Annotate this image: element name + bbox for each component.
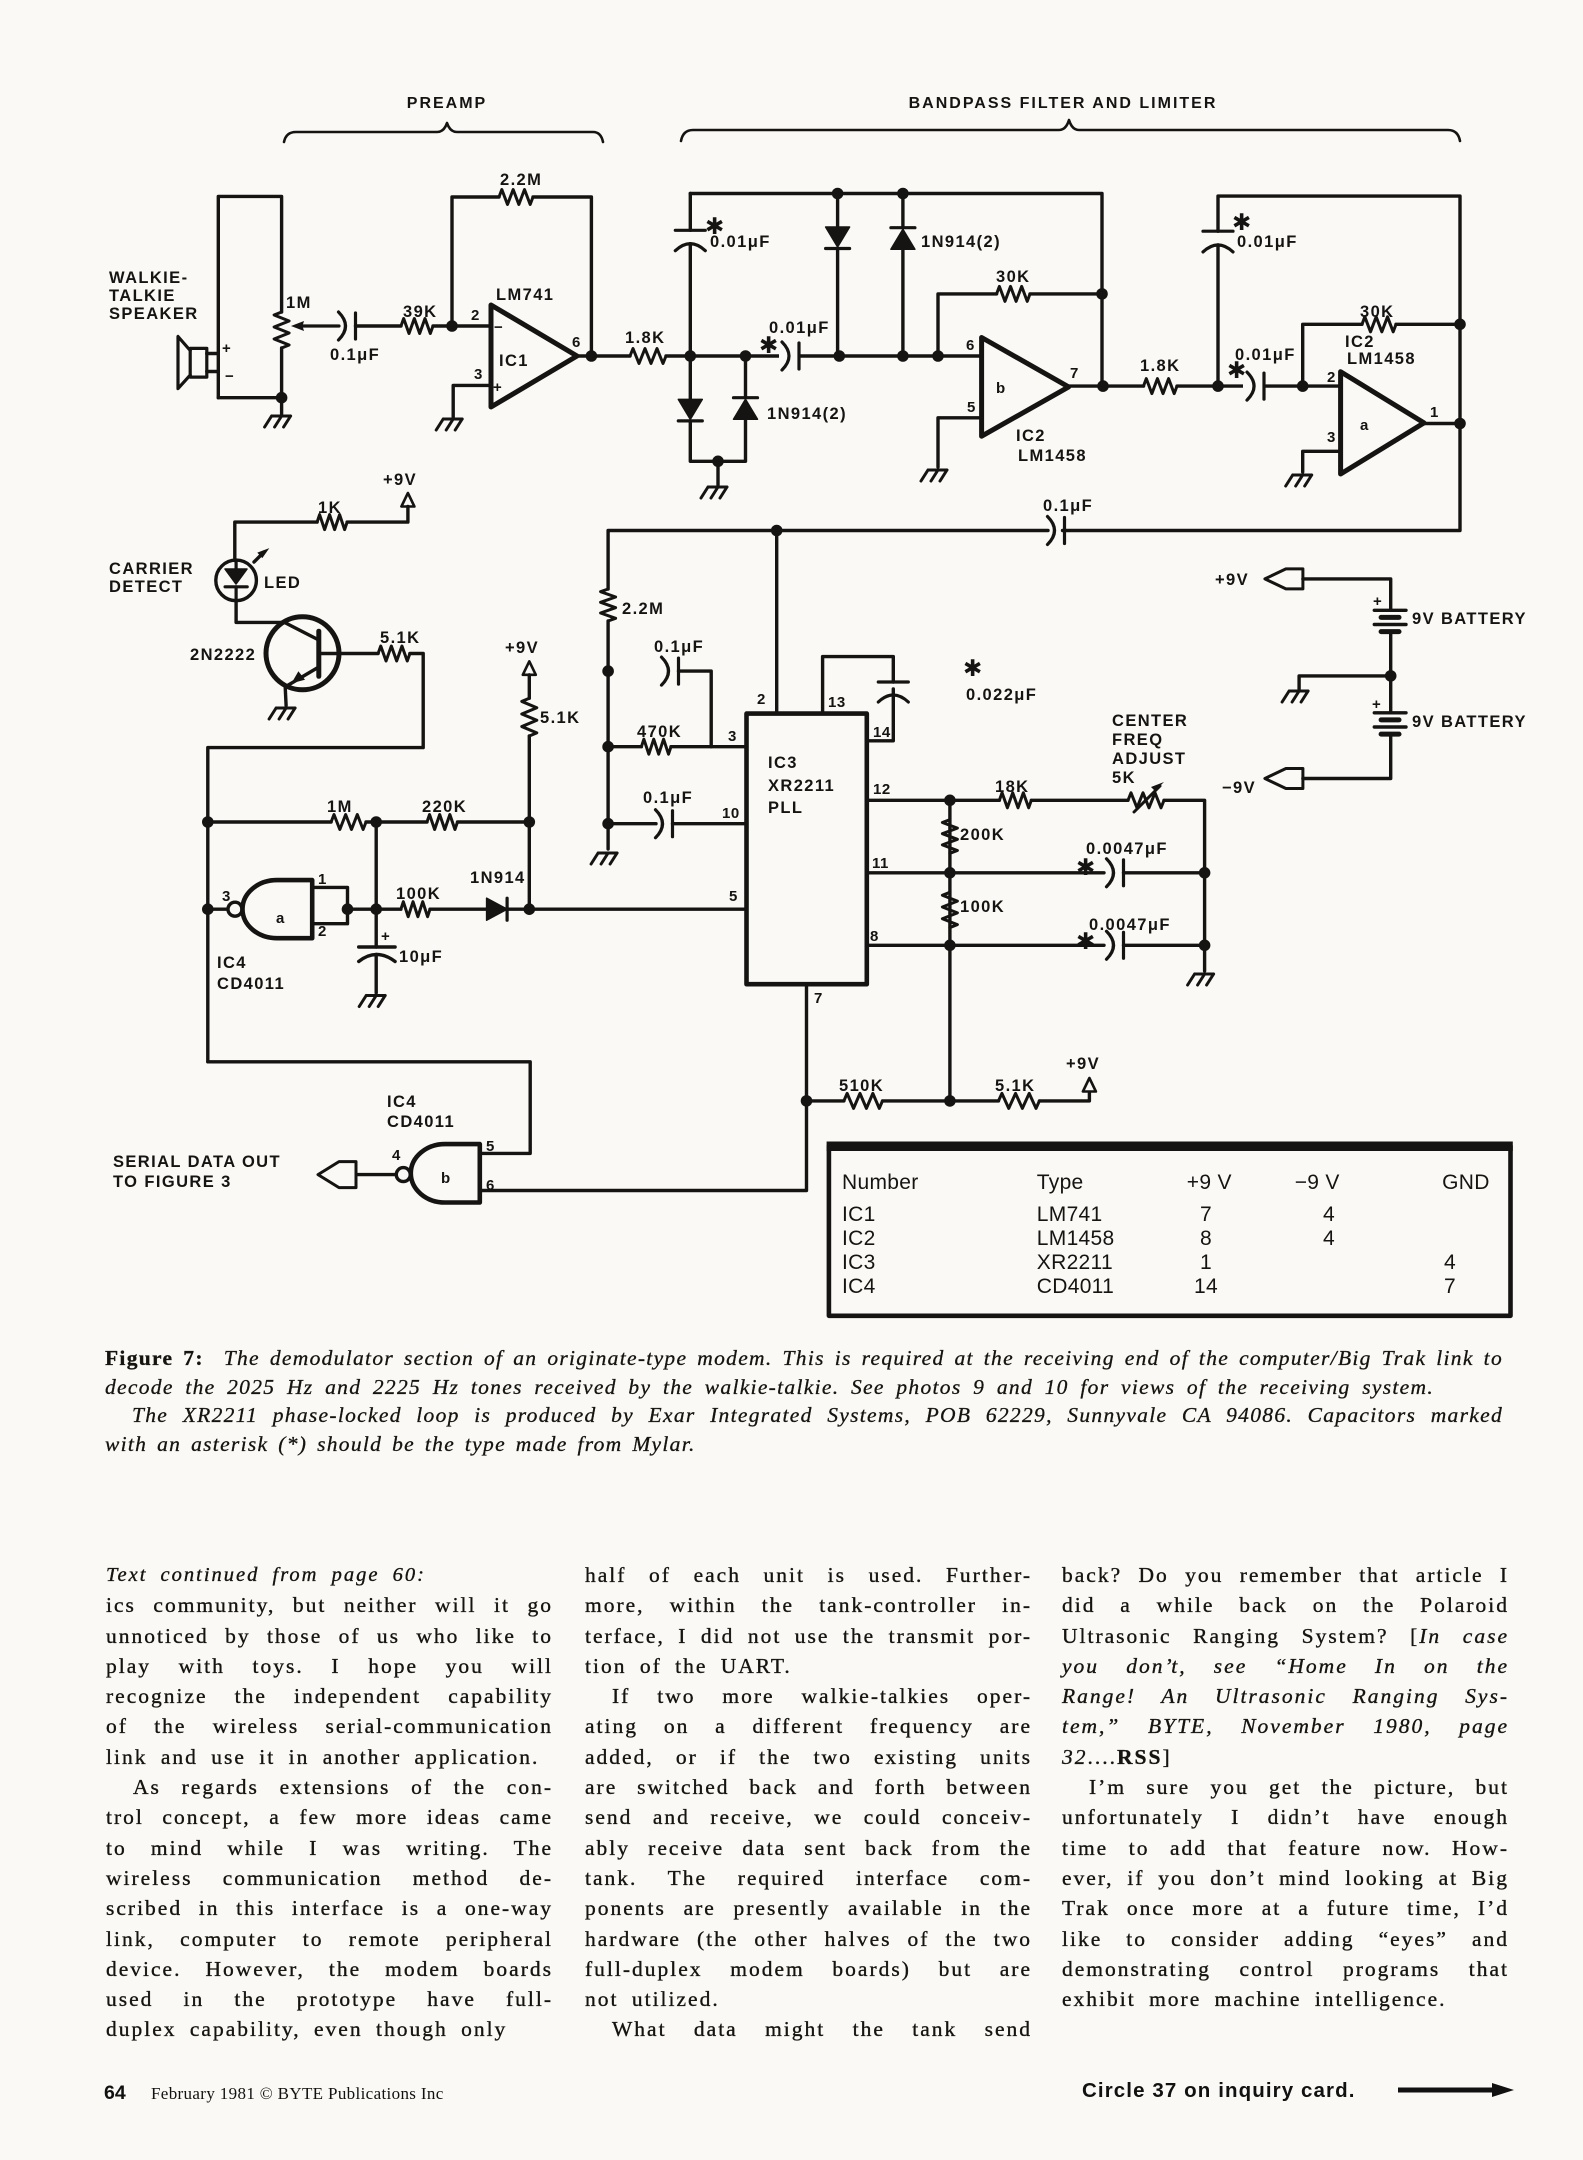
- junction main line after series cap: [834, 350, 846, 362]
- wire 100K to 1N914: [430, 908, 487, 911]
- junction 30K 2 / rail: [1454, 319, 1466, 331]
- wire cap to pin3 node: [679, 671, 712, 747]
- junction top rail diode 1: [832, 188, 844, 200]
- svg-text:+9V: +9V: [505, 639, 539, 657]
- wire to ground: [280, 398, 283, 414]
- svg-text:XR2211: XR2211: [768, 777, 835, 795]
- resistor 39K: [401, 319, 433, 334]
- svg-text:30K: 30K: [996, 268, 1030, 286]
- wire shunt cap bottom lead: [689, 244, 692, 356]
- junction IC2a input / 30K: [1297, 380, 1309, 392]
- svg-text:a: a: [1360, 417, 1369, 434]
- junction 0.1uF pin3 bypass: [602, 665, 614, 677]
- svg-text:IC4: IC4: [217, 954, 247, 972]
- junction 220K / 5.1K: [524, 816, 536, 828]
- svg-text:5.1K: 5.1K: [540, 709, 580, 727]
- svg-text:3: 3: [474, 366, 483, 383]
- wire IC2a pin3 to ground: [1303, 451, 1341, 472]
- junction main line / lower diodes: [740, 350, 752, 362]
- svg-text:5.1K: 5.1K: [995, 1077, 1035, 1095]
- wire pot bottom: [218, 396, 281, 399]
- wire IC4a input strap pins 1-2: [312, 887, 347, 923]
- text column 2: [585, 1560, 1032, 2045]
- op-amp U IC1 LM741: [491, 305, 577, 407]
- junction pin8 / chain: [944, 940, 956, 952]
- svg-text:8: 8: [1200, 1227, 1212, 1250]
- svg-text:b: b: [441, 1170, 451, 1187]
- resistor 1.8K (IC1 output): [630, 349, 666, 364]
- svg-text:6: 6: [572, 334, 581, 351]
- svg-text:100K: 100K: [960, 898, 1005, 916]
- svg-text:200K: 200K: [960, 826, 1005, 844]
- wire cap to 39K: [356, 324, 402, 327]
- wire main signal line to IC2b pin6: [666, 354, 982, 357]
- resistor 220K: [427, 815, 457, 830]
- svg-text:6: 6: [966, 337, 975, 354]
- svg-text:14: 14: [873, 724, 891, 741]
- svg-text:12: 12: [873, 781, 891, 798]
- wire 0.022uF to pin14: [867, 689, 894, 741]
- wire 1M-220K node to 10uF: [375, 822, 378, 947]
- svg-text:LM1458: LM1458: [1018, 447, 1087, 465]
- junction lower diode pair / ground: [712, 456, 724, 468]
- svg-text:5.1K: 5.1K: [380, 629, 420, 647]
- svg-text:7: 7: [1200, 1203, 1212, 1226]
- resistor 200K: [942, 820, 957, 854]
- svg-text:+9V: +9V: [383, 471, 417, 489]
- wire pin8 node down: [948, 945, 951, 1101]
- svg-text:2: 2: [471, 307, 480, 324]
- wire IC1 output to 1.8K: [577, 354, 630, 357]
- wire pot bottom lead: [280, 348, 283, 398]
- transistor Q1 2N2222: [266, 617, 339, 690]
- svg-text:8: 8: [870, 928, 879, 945]
- capacitor 0.1uF coupling to PLL: [1048, 517, 1055, 545]
- resistor 5.1K pull-up: [999, 1093, 1040, 1108]
- wire pin8 line: [867, 944, 1104, 947]
- junction 1.8K / second shunt cap: [1212, 380, 1224, 392]
- wire diode D2 anode lead: [901, 249, 904, 356]
- resistor 510K: [844, 1093, 883, 1108]
- resistor 1.8K interstage: [1144, 379, 1177, 394]
- svg-text:0.0047μF: 0.0047μF: [1089, 916, 1171, 934]
- wire speaker loop to 1M pot top: [218, 196, 281, 397]
- wire IC2b pin6 to 30K: [938, 294, 997, 356]
- text column 3: [1062, 1560, 1509, 2014]
- potentiometer 5K center freq adjust: [1128, 793, 1164, 808]
- resistor 18K: [999, 793, 1031, 808]
- wire long vertical to IC4b pin5: [208, 1062, 530, 1154]
- ground at 1M pot: [265, 416, 291, 427]
- connector flag +9V: [1265, 569, 1303, 589]
- capacitor 0.01uF shunt (Mylar): [675, 244, 705, 251]
- svg-text:1N914: 1N914: [470, 869, 526, 887]
- svg-text:ADJUST: ADJUST: [1112, 750, 1186, 768]
- svg-text:+9V: +9V: [1066, 1055, 1100, 1073]
- ground at lower diode pair: [701, 487, 727, 498]
- svg-text:1.8K: 1.8K: [625, 329, 665, 347]
- svg-text:2.2M: 2.2M: [622, 600, 664, 618]
- svg-text:LM1458: LM1458: [1347, 350, 1416, 368]
- svg-text:0.1μF: 0.1μF: [643, 789, 693, 807]
- wire base network to long vertical: [208, 654, 423, 1062]
- svg-text:7: 7: [1070, 365, 1079, 382]
- svg-text:4: 4: [1444, 1251, 1456, 1274]
- junction diode / pin5 line: [524, 903, 536, 915]
- wire IC4a output to long vertical: [208, 908, 227, 911]
- wire XR2211 pin5 to 1N914: [529, 908, 746, 911]
- capacitor 0.01uF series 2 (Mylar): [1247, 372, 1254, 400]
- svg-text:SERIAL DATA OUT: SERIAL DATA OUT: [113, 1153, 281, 1171]
- gap for series cap 2: [1243, 370, 1264, 402]
- svg-text:9V BATTERY: 9V BATTERY: [1412, 610, 1527, 628]
- schematic figure 7: [0, 0, 1583, 1340]
- diode D1 1N914 (down): [826, 227, 850, 247]
- wiper arrow of 1M pot: [296, 324, 339, 327]
- resistor 5.1K base: [378, 646, 410, 661]
- ground at bias network: [591, 853, 617, 864]
- power connection table: [829, 1146, 1511, 1316]
- svg-text:IC3: IC3: [768, 754, 798, 772]
- resistor 2.2M bias: [601, 589, 616, 621]
- svg-text:2: 2: [1327, 369, 1336, 386]
- svg-text:0.1μF: 0.1μF: [1043, 497, 1093, 515]
- svg-text:470K: 470K: [637, 723, 682, 741]
- junction 1M / 220K / 10uF node: [370, 816, 382, 828]
- wire XR2211 pin7 down: [805, 984, 808, 1101]
- svg-text:0.01μF: 0.01μF: [1237, 233, 1298, 251]
- svg-text:IC4: IC4: [387, 1093, 417, 1111]
- capacitor 0.022uF (Mylar) timing: [878, 695, 908, 702]
- svg-text:Type: Type: [1037, 1171, 1084, 1194]
- svg-text:1M: 1M: [286, 294, 312, 312]
- IC U3 XR2211 PLL box: [747, 714, 867, 985]
- svg-text:IC2: IC2: [1016, 427, 1046, 445]
- svg-text:−9V: −9V: [1222, 779, 1256, 797]
- svg-text:30K: 30K: [1360, 303, 1394, 321]
- capacitor 0.1uF (pin 10): [656, 810, 663, 838]
- wire IC1 feedback left: [452, 197, 499, 326]
- svg-text:1: 1: [1430, 404, 1439, 421]
- resistor 2.2M feedback IC1: [499, 190, 533, 205]
- ground at right vertical: [1188, 974, 1214, 985]
- svg-text:2: 2: [318, 923, 327, 940]
- resistor 470K: [641, 739, 671, 754]
- svg-text:100K: 100K: [396, 885, 441, 903]
- wire +9V flag to battery 1: [1303, 579, 1391, 610]
- svg-text:0.1μF: 0.1μF: [330, 346, 380, 364]
- svg-text:IC2: IC2: [842, 1227, 876, 1250]
- svg-text:5: 5: [486, 1138, 495, 1155]
- wire IC2a output to rail: [1424, 422, 1460, 425]
- svg-text:4: 4: [1323, 1203, 1335, 1226]
- op-amp U IC2b LM1458: [982, 338, 1069, 437]
- diode D3 1N914 (down): [678, 399, 702, 419]
- svg-text:SPEAKER: SPEAKER: [109, 305, 199, 323]
- capacitor 0.0047uF (Mylar) pin8: [1107, 931, 1114, 959]
- wire shunt cap 2 bottom lead: [1216, 245, 1219, 386]
- battery B1 9V: [1374, 609, 1406, 612]
- potentiometer R 1M (volume): [274, 312, 289, 348]
- junction 470K: [602, 741, 614, 753]
- svg-text:5K: 5K: [1112, 769, 1136, 787]
- svg-text:2: 2: [757, 691, 766, 708]
- wire strap to 100K: [348, 908, 401, 911]
- wire XR2211 pin2 from signal line: [775, 531, 778, 714]
- svg-text:0.01μF: 0.01μF: [710, 233, 771, 251]
- junction long vertical / 1M: [202, 816, 214, 828]
- wire 200K/100K chain: [948, 800, 951, 945]
- ground at 10uF: [359, 996, 385, 1007]
- wire 10uF to ground: [375, 955, 378, 993]
- wire diode D2 cathode lead: [901, 194, 904, 228]
- svg-text:PLL: PLL: [768, 799, 803, 817]
- wire IC2b output: [1069, 384, 1144, 387]
- wire 5K pot to right vertical: [1164, 800, 1205, 971]
- wire emitter to ground: [284, 687, 288, 706]
- svg-text:+: +: [1372, 696, 1381, 713]
- wire 470K to XR2211 pin3: [671, 745, 747, 748]
- wire 0.1uF to 2.2M input node: [608, 531, 1048, 590]
- NAND gate U IC4b CD4011: [411, 1144, 480, 1202]
- svg-text:+: +: [222, 340, 231, 357]
- svg-text:IC2: IC2: [1345, 333, 1375, 351]
- svg-text:✱: ✱: [1076, 928, 1095, 954]
- junction IC2b output: [1097, 380, 1109, 392]
- wire LED cathode to 2N2222 collector: [236, 601, 284, 623]
- wire IC2b pin5 to ground: [938, 418, 982, 467]
- svg-text:2.2M: 2.2M: [500, 171, 542, 189]
- ground at 2N2222 emitter: [269, 708, 295, 719]
- connector flag serial data out: [318, 1162, 356, 1188]
- wire 0.0047 to right vertical: [1124, 871, 1205, 874]
- capacitor 0.01uF shunt 2 (Mylar): [1203, 245, 1233, 252]
- svg-text:0.022μF: 0.022μF: [966, 686, 1037, 704]
- speaker LS1 walkie-talkie: [190, 348, 207, 377]
- wire IC1 pin3 to ground: [453, 385, 491, 417]
- svg-text:DETECT: DETECT: [109, 578, 183, 596]
- svg-text:+: +: [493, 379, 502, 396]
- svg-text:39K: 39K: [403, 303, 437, 321]
- capacitor 0.01uF series (Mylar): [782, 342, 789, 370]
- svg-text:1.8K: 1.8K: [1140, 357, 1180, 375]
- svg-text:10: 10: [722, 805, 740, 822]
- svg-text:WALKIE-: WALKIE-: [109, 269, 188, 287]
- power +9V arrow (1K): [401, 493, 414, 507]
- wire 1K to LED anode: [235, 522, 317, 560]
- svg-text:✱: ✱: [1227, 357, 1246, 383]
- wire lower diode pair bottom: [690, 419, 745, 461]
- svg-text:LED: LED: [264, 574, 301, 592]
- wire pin10 cap to XR2211: [673, 822, 747, 825]
- figure caption: [105, 1344, 1503, 1458]
- svg-text:FREQ: FREQ: [1112, 731, 1163, 749]
- svg-text:0.1μF: 0.1μF: [654, 638, 704, 656]
- wire speaker - terminal: [207, 370, 219, 373]
- ground at IC1 pin3: [436, 419, 462, 430]
- junction battery midpoint: [1385, 670, 1397, 682]
- junction IC1 output: [586, 350, 598, 362]
- svg-text:+9V: +9V: [1215, 571, 1249, 589]
- LED carrier detect indicator: [216, 560, 257, 601]
- diode D5 1N914 series: [487, 898, 508, 920]
- wire IC1 feedback right: [533, 197, 591, 356]
- resistor 30K feedback IC2b: [997, 286, 1030, 301]
- junction main line / 0.01uF shunt: [685, 350, 697, 362]
- resistor 100K chain: [942, 892, 957, 927]
- svg-text:5: 5: [967, 399, 976, 416]
- wire output rail down to 0.1uF: [1063, 424, 1461, 531]
- wire battery midpoint to ground: [1299, 676, 1391, 689]
- svg-text:18K: 18K: [995, 778, 1029, 796]
- svg-text:IC4: IC4: [842, 1275, 876, 1298]
- svg-text:✱: ✱: [963, 655, 982, 681]
- junction right vertical pin11: [1199, 867, 1211, 879]
- svg-text:a: a: [276, 910, 285, 927]
- resistor 100K (IC4a): [401, 902, 430, 917]
- wire 5.1K vertical down: [528, 736, 531, 909]
- capacitor 0.0047uF (Mylar) pin11: [1107, 859, 1114, 887]
- wire shunt cap top lead: [689, 194, 692, 231]
- svg-text:1N914(2): 1N914(2): [921, 233, 1001, 251]
- resistor 1K: [317, 515, 347, 530]
- svg-text:IC1: IC1: [499, 352, 529, 370]
- junction 0.1uF pin10: [602, 818, 614, 830]
- brace PREAMP section: [284, 123, 603, 142]
- wire top rail 2 / IC2a feedback: [1218, 196, 1460, 423]
- svg-text:CD4011: CD4011: [217, 975, 285, 993]
- wire battery 1 to battery 2: [1389, 632, 1392, 713]
- capacitor 0.1uF input coupling: [339, 312, 346, 340]
- junction node IC1 inverting input: [446, 320, 458, 332]
- svg-text:LM741: LM741: [496, 286, 554, 304]
- junction pin11 / chain: [944, 867, 956, 879]
- svg-text:1M: 1M: [327, 798, 353, 816]
- svg-text:1: 1: [1200, 1251, 1212, 1274]
- junction main line diode 2: [897, 350, 909, 362]
- junction top rail diode 2: [897, 188, 909, 200]
- junction IC2a output / rail: [1454, 418, 1466, 430]
- wire 30K to IC2b output rail: [1030, 292, 1102, 295]
- footer: [104, 2082, 126, 2105]
- wire 39K to IC1 pin2: [433, 324, 491, 327]
- wire IC4b output to flag: [357, 1173, 396, 1176]
- power +9V arrow (pull-up): [1083, 1078, 1096, 1092]
- svg-text:✱: ✱: [1076, 854, 1095, 880]
- junction right vertical pin8: [1199, 940, 1211, 952]
- svg-text:510K: 510K: [839, 1077, 884, 1095]
- wire 18K to 5K pot: [1031, 799, 1128, 802]
- wire battery 2 to -9V flag: [1303, 734, 1391, 778]
- note: series 0.01uF sits in gap of main line: [779, 340, 799, 372]
- brace bandpass filter section: [681, 120, 1460, 141]
- resistor 5.1K bias vertical: [522, 698, 537, 736]
- svg-text:+: +: [1373, 593, 1382, 610]
- power +9V arrow (bias): [523, 661, 536, 675]
- junction 100K line / 10uF vertical: [370, 903, 382, 915]
- wire to ground lower diodes: [716, 461, 719, 485]
- junction main line 30K tap: [932, 350, 944, 362]
- wire IC4b pin6 to 510K node: [480, 1101, 807, 1191]
- wire pin12 to 18K: [867, 799, 1000, 802]
- svg-text:1N914(2): 1N914(2): [767, 405, 847, 423]
- svg-text:+: +: [381, 928, 390, 945]
- op-amp U IC2a LM1458: [1341, 372, 1424, 474]
- wire 0.0047 pin8 to right vertical: [1124, 944, 1205, 947]
- svg-text:13: 13: [828, 694, 846, 711]
- svg-text:TO FIGURE 3: TO FIGURE 3: [113, 1173, 232, 1191]
- diode D4 1N914 (up): [734, 396, 758, 399]
- svg-text:−9 V: −9 V: [1295, 1171, 1340, 1194]
- wire 2.2M node to 470K: [608, 745, 641, 748]
- battery B2 9V: [1374, 711, 1406, 714]
- junction pot bottom / ground: [276, 392, 288, 404]
- wire +9V to 5.1K vertical: [528, 675, 531, 699]
- svg-text:11: 11: [872, 855, 889, 872]
- svg-text:+9 V: +9 V: [1187, 1171, 1232, 1194]
- svg-text:1K: 1K: [318, 499, 342, 517]
- resistor 30K feedback IC2a: [1362, 317, 1396, 332]
- svg-text:CENTER: CENTER: [1112, 712, 1188, 730]
- wire +9V to 1K: [347, 507, 408, 523]
- svg-text:2N2222: 2N2222: [190, 646, 256, 664]
- junction XR2211 pin2 tap: [771, 525, 783, 537]
- svg-text:PREAMP: PREAMP: [407, 95, 487, 112]
- svg-text:BANDPASS FILTER AND LIMITER: BANDPASS FILTER AND LIMITER: [909, 95, 1218, 112]
- junction strap / output line: [342, 903, 354, 915]
- svg-text:Number: Number: [842, 1171, 919, 1194]
- svg-text:220K: 220K: [422, 798, 467, 816]
- junction pin12 / 200K: [944, 795, 956, 807]
- svg-text:3: 3: [222, 888, 231, 905]
- ground at battery midpoint: [1282, 691, 1308, 702]
- wire 220K to 5.1K vertical: [458, 820, 530, 823]
- wire 510K to 5.1K: [883, 1099, 999, 1102]
- text column 1: [106, 1560, 553, 2045]
- wire pin13 loop: [823, 657, 894, 714]
- resistor 1M: [331, 815, 366, 830]
- svg-text:3: 3: [728, 728, 737, 745]
- wire node to pin10 cap: [608, 822, 656, 825]
- wire IC2a pin2 to 30K 2: [1303, 324, 1362, 386]
- svg-text:7: 7: [814, 990, 823, 1007]
- wire pin7 node to 510K: [807, 1099, 844, 1102]
- wire 1M to 220K: [366, 820, 427, 823]
- capacitor 0.1uF (pin 3 network): [662, 657, 669, 685]
- wire 5.1K to +9V: [1039, 1093, 1089, 1101]
- svg-text:✱: ✱: [759, 332, 778, 358]
- svg-text:LM741: LM741: [1037, 1203, 1103, 1226]
- connector flag -9V: [1265, 769, 1303, 789]
- wire diode D3 anode lead: [689, 356, 692, 399]
- svg-text:4: 4: [1323, 1227, 1335, 1250]
- svg-text:4: 4: [392, 1147, 401, 1164]
- junction 510K / 5.1K: [944, 1095, 956, 1107]
- svg-text:14: 14: [1194, 1275, 1218, 1298]
- ground at IC2a pin3: [1286, 475, 1312, 486]
- wire base to 5.1K: [319, 652, 378, 655]
- diode D2 1N914 (up): [891, 226, 915, 229]
- svg-text:3: 3: [1327, 429, 1336, 446]
- svg-text:✱: ✱: [1232, 209, 1251, 235]
- wire 1N914 to pin5 node: [507, 908, 529, 911]
- svg-text:1: 1: [318, 871, 327, 888]
- svg-text:7: 7: [1444, 1275, 1456, 1298]
- wire bias vertical: [606, 621, 609, 849]
- svg-text:IC1: IC1: [842, 1203, 876, 1226]
- junction long vertical / IC4a: [202, 903, 214, 915]
- svg-text:CD4011: CD4011: [1037, 1275, 1114, 1298]
